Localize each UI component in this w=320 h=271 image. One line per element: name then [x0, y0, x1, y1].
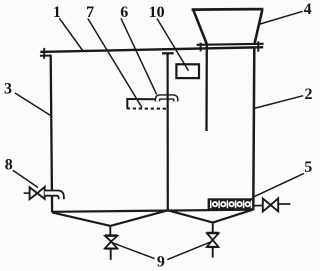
leader line from 4 to funnel [259, 11, 303, 24]
box 10 [176, 64, 199, 78]
leader line from 7 to screen box [88, 19, 142, 108]
funnel right slant [254, 10, 262, 45]
left drain valve upper triangle [105, 236, 117, 241]
svg-text:5: 5 [304, 159, 312, 176]
leader line from 9 to left drain valve [111, 242, 155, 258]
funnel flange right tick [257, 41, 259, 51]
inlet stub (8) [24, 192, 30, 194]
outlet valve left triangle [263, 199, 271, 212]
hook nozzle (item 6) [158, 97, 176, 101]
funnel flange top line [197, 44, 264, 45]
right drain valve lower triangle [207, 240, 219, 247]
right drain valve top bar [207, 232, 219, 234]
svg-text:9: 9 [157, 254, 165, 271]
svg-text:10: 10 [149, 4, 165, 21]
left drain valve bottom bar [105, 248, 118, 250]
inlet tube white fill [45, 190, 65, 200]
funnel neck left line [205, 44, 208, 131]
leader line from 8 to inlet valve [13, 170, 38, 187]
tank right wall [253, 47, 254, 210]
funnel left slant [193, 10, 207, 44]
screen box dashed bottom [127, 108, 167, 110]
svg-text:3: 3 [4, 80, 12, 97]
left drain valve top bar [105, 234, 118, 236]
outlet line right [278, 203, 290, 205]
screen box top edge (item 7) [127, 98, 156, 100]
tank left wall [51, 56, 52, 213]
funnel rim [192, 8, 264, 11]
inlet tube outer contour [45, 191, 64, 200]
svg-text:7: 7 [86, 4, 94, 21]
left V hopper [52, 210, 168, 226]
left drain pipe lower [110, 249, 112, 260]
left drain pipe upper [109, 226, 111, 235]
svg-text:4: 4 [304, 1, 312, 18]
leader line from 10 into box [157, 19, 189, 71]
left drain valve lower triangle [105, 241, 117, 248]
tank bottom line [52, 210, 253, 212]
tank lid [40, 47, 263, 52]
leader line from 9 to right drain valve [167, 242, 211, 260]
inlet valve right triangle [37, 187, 44, 199]
outlet valve right triangle [271, 198, 279, 211]
funnel flange left tick [200, 43, 202, 52]
shaft / center divider [167, 53, 169, 210]
inlet tube inner contour [45, 196, 59, 200]
leader line from 6 to hook [121, 18, 157, 94]
right drain pipe upper [212, 223, 214, 233]
sparger box (item 5) [208, 198, 255, 210]
outlet pipe from wall (5) [254, 205, 263, 207]
leader line from 2 to right wall [254, 96, 303, 109]
svg-text:8: 8 [5, 156, 13, 173]
lid left flange tick [43, 48, 45, 59]
svg-text:2: 2 [305, 86, 313, 103]
right drain valve bottom bar [207, 246, 219, 248]
leader line to lid from 1 [59, 18, 83, 51]
sparger hole centers [214, 203, 249, 206]
screen box left edge [126, 99, 128, 109]
sparger holes [212, 201, 251, 207]
leader line from 5 to sparger [254, 173, 304, 196]
right V hopper [168, 210, 253, 223]
right drain valve upper triangle [207, 233, 219, 240]
shaft T-bar [162, 52, 174, 54]
sparger white separators [211, 200, 252, 208]
inlet valve left triangle [30, 187, 38, 199]
leader line from 3 to left wall [15, 93, 51, 116]
right drain pipe lower [212, 247, 214, 257]
lid left flange stub [40, 55, 52, 57]
